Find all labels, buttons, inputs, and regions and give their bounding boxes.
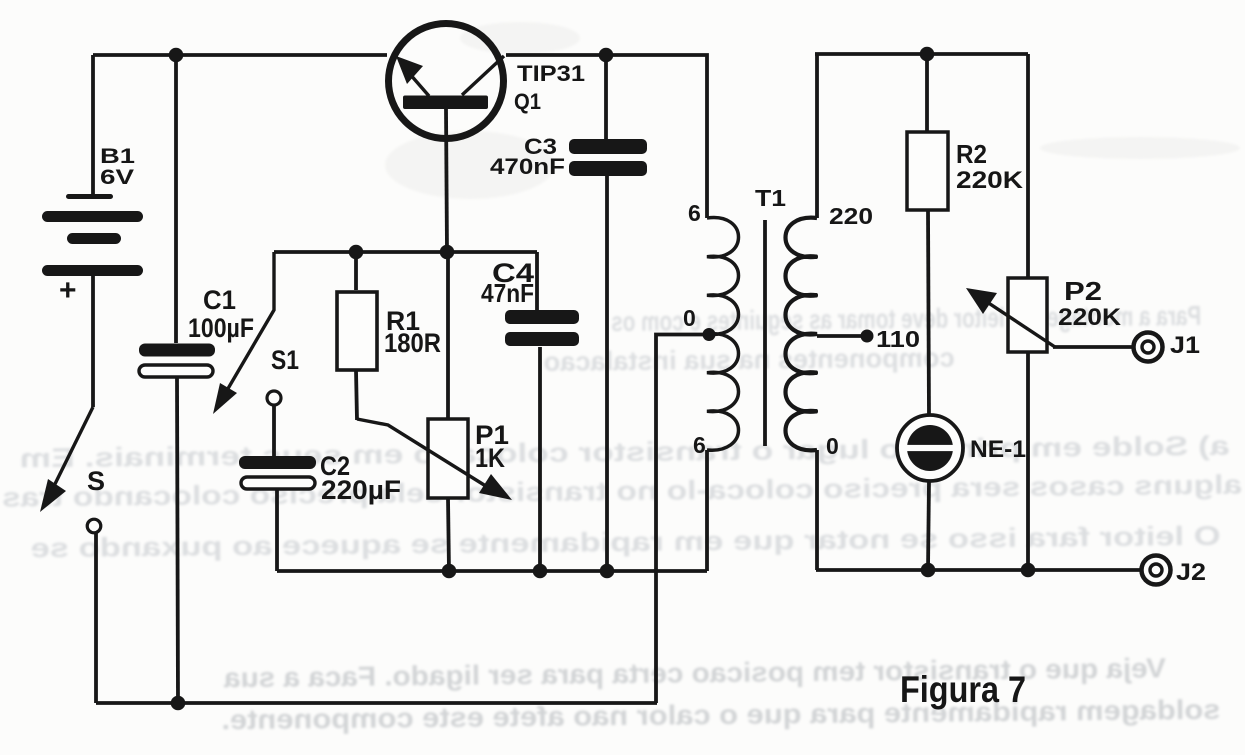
capacitor C2: [239, 456, 316, 489]
transistor Q1 base bar: [403, 96, 488, 110]
svg-text:6V: 6V: [100, 165, 135, 189]
svg-text:220K: 220K: [956, 167, 1023, 194]
capacitor C3: [569, 139, 647, 176]
svg-text:+: +: [59, 274, 77, 307]
svg-text:TIP31: TIP31: [517, 61, 585, 86]
wire P2 top lead: [1026, 54, 1030, 278]
wire battery negative lead to switch: [91, 276, 95, 407]
junction dot C4 bottom: [533, 564, 548, 579]
wire C4 branch bottom: [538, 347, 542, 571]
battery B1 plates: [42, 194, 143, 276]
svg-text:Figura 7: Figura 7: [900, 669, 1026, 710]
wire T1 secondary 110 tap: [817, 334, 863, 338]
svg-text:180R: 180R: [384, 328, 441, 358]
wire top rail left (battery to Q1): [93, 53, 387, 57]
resistor R1: [337, 292, 377, 370]
svg-text:470nF: 470nF: [490, 154, 565, 179]
wire P1 branch: [446, 252, 450, 419]
svg-text:C1: C1: [203, 285, 236, 315]
wire switch S to bottom rail: [94, 533, 98, 703]
wire mid rail (R1/P1/C4 top): [274, 250, 537, 254]
wire T1 secondary bottom lead: [815, 450, 819, 570]
wire P2 bottom lead: [1026, 352, 1030, 570]
neon lamp NE-1: [897, 415, 963, 481]
transistor Q1 collector line: [462, 56, 504, 95]
wire T1 primary center tap to bottom rail: [656, 335, 709, 704]
capacitor C1: [139, 344, 215, 378]
wire R2 top lead: [925, 54, 929, 132]
wire NE-1 bottom lead: [928, 481, 929, 570]
junction dot P1 top: [440, 245, 455, 260]
svg-text:S1: S1: [271, 345, 299, 375]
junction dot R1 top: [349, 245, 364, 260]
T1 secondary winding: [786, 218, 818, 451]
wire bottom rail right: [816, 568, 1141, 572]
switch S arm: [40, 407, 93, 512]
wire top rail far right: [815, 52, 1028, 56]
wire P1 bottom lead: [448, 498, 449, 571]
faint bleed-through text: [0, 299, 1244, 737]
wire C3 branch bottom: [605, 171, 609, 571]
junction dot 110 tap: [861, 330, 874, 343]
potentiometer P1 wiper arrow: [357, 419, 512, 500]
svg-text:220K: 220K: [1058, 304, 1121, 331]
wire R1 bottom lead: [356, 370, 357, 420]
transistor Q1 circle: [389, 24, 504, 139]
svg-text:110: 110: [876, 326, 920, 352]
svg-text:6: 6: [688, 200, 701, 226]
junction dot NE-1 bottom: [921, 563, 936, 578]
wire P2 wiper to J1: [1053, 345, 1132, 349]
svg-text:220: 220: [829, 203, 873, 229]
svg-text:J1: J1: [1170, 332, 1200, 359]
wire T1 secondary top lead: [815, 54, 819, 218]
junction dot C3 bottom: [600, 564, 615, 579]
wire Q1 base lead: [446, 109, 447, 252]
switch S1 contact circle: [267, 391, 281, 405]
T1 secondary cusp blobs: [801, 255, 818, 414]
svg-text:220µF: 220µF: [321, 475, 401, 505]
wire bottom rail (negative): [96, 701, 657, 705]
wire battery positive lead: [91, 55, 95, 196]
wire C2 to bottom: [275, 490, 279, 571]
potentiometer P1 body: [428, 419, 468, 498]
svg-text:1K: 1K: [475, 443, 505, 473]
junction dot C1 top: [169, 48, 184, 63]
switch S contact circle: [87, 519, 101, 533]
wire R2 to NE-1: [928, 210, 929, 417]
svg-text:Q1: Q1: [514, 89, 541, 114]
svg-text:T1: T1: [755, 185, 786, 211]
potentiometer P2 wiper arrow: [966, 288, 1055, 347]
wire S1 to C2: [272, 406, 276, 456]
svg-text:NE-1: NE-1: [970, 436, 1026, 463]
junction dot P2 bottom: [1021, 563, 1036, 578]
paper smudges: [385, 22, 1240, 199]
transistor Q1 emitter arrow: [396, 56, 429, 96]
junction dot T1 primary tap: [703, 328, 716, 341]
wire bottom rail 2 (left oscillator): [277, 569, 707, 573]
jack J2: [1142, 556, 1171, 585]
svg-text:S: S: [87, 466, 105, 496]
svg-text:100µF: 100µF: [188, 313, 254, 343]
potentiometer P2 body: [1008, 278, 1047, 352]
capacitor C4: [505, 310, 579, 346]
junction dot C3 top: [599, 48, 614, 63]
wire T1 primary bottom lead: [705, 450, 709, 571]
svg-text:0: 0: [683, 305, 696, 331]
svg-text:0: 0: [826, 433, 839, 459]
switch S1 arm: [213, 252, 274, 414]
svg-text:R2: R2: [956, 139, 987, 169]
svg-text:P2: P2: [1064, 276, 1102, 306]
wire R1 top lead: [354, 252, 358, 290]
svg-text:6: 6: [693, 432, 706, 458]
jack J1: [1134, 333, 1163, 362]
svg-text:47nF: 47nF: [481, 278, 534, 308]
T1 core: [763, 220, 767, 446]
svg-text:J2: J2: [1176, 559, 1206, 586]
wire C1 branch bottom: [177, 378, 178, 703]
T1 primary winding: [707, 217, 739, 450]
resistor R2: [907, 132, 948, 210]
wire C3 branch top: [604, 55, 608, 140]
junction dot C1 bottom: [171, 696, 186, 711]
wire C1 branch top: [174, 55, 178, 343]
junction dot R2 top: [920, 47, 935, 62]
wire C4 branch top: [535, 252, 539, 310]
wire top rail right (Q1 to T1 primary top): [506, 55, 707, 218]
junction dot P1 bottom: [442, 564, 457, 579]
